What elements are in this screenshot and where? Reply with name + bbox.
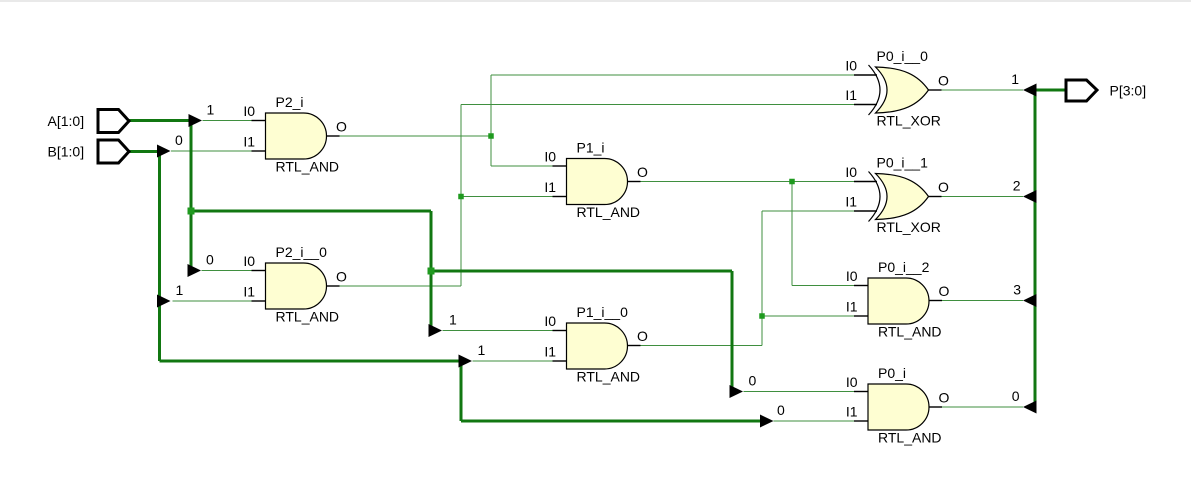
svg-text:I0: I0	[243, 103, 255, 119]
wire bus B vertical	[158, 152, 161, 362]
junction net P1_i__0_O	[759, 313, 765, 319]
svg-text:I1: I1	[544, 179, 556, 195]
svg-text:I0: I0	[845, 58, 857, 74]
wire bus A branch row 2	[431, 270, 732, 273]
pin I1 stub P0_i__0	[854, 104, 877, 106]
P1_i	[544, 140, 648, 221]
svg-text:I0: I0	[544, 149, 556, 165]
svg-text:P1_i__0: P1_i__0	[577, 304, 629, 320]
svg-text:RTL_AND: RTL_AND	[577, 369, 641, 385]
bus tap arrow B[0] upper	[157, 145, 171, 158]
svg-text:I1: I1	[845, 87, 857, 103]
svg-text:1: 1	[176, 282, 184, 298]
wire net P2_i__0_O to P0_i__0 I1	[461, 104, 854, 106]
P2_i__0	[243, 244, 347, 325]
P0_i__2	[846, 259, 950, 340]
svg-text:I0: I0	[846, 374, 858, 390]
wire net P0_i__0_O to P bus	[942, 89, 1024, 91]
P0_i	[846, 365, 950, 446]
svg-text:1: 1	[207, 102, 215, 118]
svg-text:P0_i__2: P0_i__2	[878, 259, 930, 275]
pin I0 stub P0_i__2	[854, 285, 868, 287]
pin I1 stub P1_i__0	[553, 360, 567, 362]
pin O stub P1_i	[628, 181, 641, 183]
bus tap arrow A[0] left	[188, 264, 202, 277]
P0_i__0	[845, 48, 949, 129]
svg-text:RTL_AND: RTL_AND	[276, 159, 340, 175]
svg-text:RTL_AND: RTL_AND	[577, 204, 641, 220]
svg-text:RTL_XOR: RTL_XOR	[877, 113, 941, 129]
wire net P1_i__0_O to P0_i__2 I1	[762, 315, 854, 317]
svg-text:0: 0	[749, 373, 757, 389]
svg-text:P[3:0]: P[3:0]	[1110, 83, 1147, 99]
pin O stub P1_i__0	[628, 345, 641, 347]
gate body P2_i__0	[266, 263, 327, 309]
svg-text:I1: I1	[846, 404, 858, 420]
junction bus A branch	[188, 208, 195, 215]
wire bus A vertical 2	[430, 211, 433, 331]
svg-text:I0: I0	[544, 313, 556, 329]
svg-text:I1: I1	[243, 134, 255, 150]
svg-text:I0: I0	[846, 268, 858, 284]
svg-text:1: 1	[1011, 71, 1019, 87]
svg-text:RTL_XOR: RTL_XOR	[877, 219, 941, 235]
svg-text:P2_i: P2_i	[276, 94, 304, 110]
wire A[1] tap to P2_i I0	[203, 120, 252, 122]
pin I0 stub P1_i	[553, 165, 567, 167]
input side arc P0_i__1	[869, 172, 881, 222]
svg-text:0: 0	[777, 402, 785, 418]
bus tap arrow B[0] lower	[760, 415, 774, 428]
P0_i__1	[845, 155, 949, 236]
gate body P1_i	[567, 159, 628, 205]
wire bus B bottom row	[160, 360, 462, 363]
bus tap arrow P[3]	[1023, 294, 1037, 307]
bus tap arrow P[1]	[1023, 84, 1037, 97]
svg-text:O: O	[938, 179, 949, 195]
pin I1 stub P2_i__0	[252, 300, 266, 302]
svg-text:O: O	[938, 73, 949, 89]
pin I0 stub P1_i__0	[553, 330, 567, 332]
wire bus P to port	[1035, 89, 1065, 92]
input port B[1:0]	[48, 140, 130, 163]
svg-text:P0_i: P0_i	[878, 365, 906, 381]
pin O stub P0_i__2	[929, 300, 942, 302]
wire bus B bottom row 2	[461, 420, 761, 423]
input port A[1:0]	[48, 110, 130, 133]
P1_i__0	[544, 304, 648, 385]
wire net P0_i__2_O to P bus	[942, 300, 1023, 302]
junction bus A branch 2	[428, 268, 435, 275]
pin I0 stub P0_i	[854, 391, 868, 393]
wire B[1] tap to P1_i__0 I1	[473, 360, 553, 362]
wire net P1_i__0_O to P0_i__1 I1	[762, 210, 854, 212]
wire net P1_i_O vertical	[791, 182, 793, 286]
gate body P2_i	[266, 113, 327, 159]
wire bus A branch row	[191, 210, 431, 213]
pin O stub P0_i__1	[929, 196, 942, 198]
svg-text:RTL_AND: RTL_AND	[878, 430, 942, 446]
pin I1 stub P0_i	[854, 420, 868, 422]
pin I1 stub P0_i__2	[854, 315, 868, 317]
pin O stub P0_i__0	[929, 89, 942, 91]
wire net P2_i_O to P1_i I0	[491, 165, 553, 167]
pin O stub P0_i	[929, 406, 942, 408]
wire net P2_i_O vertical up	[490, 75, 492, 136]
bus tap arrow A[1] upper	[189, 114, 203, 127]
bus tap arrow B[1] mid	[459, 355, 473, 368]
wire bus A from port	[129, 119, 193, 122]
svg-text:O: O	[939, 283, 950, 299]
svg-text:0: 0	[175, 132, 183, 148]
wire B[1] tap to P2_i__0 I1	[173, 300, 252, 302]
wire bus P vertical	[1034, 90, 1037, 407]
svg-text:0: 0	[1012, 388, 1020, 404]
wire A[0] tap to P0_i I0	[744, 391, 855, 393]
pin O stub P2_i__0	[327, 285, 340, 287]
wire net P2_i_O to P0_i__0 I0	[491, 74, 854, 76]
pin I0 stub P2_i__0	[252, 270, 266, 272]
svg-text:RTL_AND: RTL_AND	[878, 324, 942, 340]
P2_i	[243, 94, 347, 175]
wire bus A vertical	[190, 121, 193, 271]
svg-text:P1_i: P1_i	[577, 140, 605, 156]
bus tap arrow A[0] lower	[730, 385, 744, 398]
wire A[0] tap to P2_i__0 I0	[202, 270, 252, 272]
gate body P0_i	[868, 384, 929, 430]
svg-text:I1: I1	[845, 194, 857, 210]
output port P[3:0]	[1066, 80, 1146, 101]
svg-text:I1: I1	[846, 299, 858, 315]
svg-text:O: O	[637, 328, 648, 344]
wire net P0_i__1_O to P bus	[942, 196, 1024, 198]
pin I1 stub P0_i__1	[854, 210, 877, 212]
svg-text:I0: I0	[243, 253, 255, 269]
pin I0 stub P0_i__0	[854, 74, 877, 76]
junction net P1_i_O	[789, 179, 795, 185]
svg-text:1: 1	[478, 342, 486, 358]
wire bus A vertical 3	[731, 271, 734, 392]
svg-text:I0: I0	[845, 164, 857, 180]
input side arc P0_i__0	[869, 65, 881, 115]
bus tap arrow A[1] mid	[429, 324, 443, 337]
svg-text:2: 2	[1013, 178, 1021, 194]
wire net P1_i_O to P0_i__2 I0	[792, 285, 854, 287]
svg-text:O: O	[637, 164, 648, 180]
svg-text:P0_i__0: P0_i__0	[877, 48, 929, 64]
gate body P0_i__1	[876, 174, 929, 220]
bus tap arrow P[2]	[1023, 190, 1037, 203]
svg-text:O: O	[336, 269, 347, 285]
gate body P0_i__2	[868, 278, 929, 324]
junction net P2_i_O	[488, 133, 494, 139]
svg-text:P2_i__0: P2_i__0	[276, 244, 328, 260]
wire B[0] tap to P2_i I1	[171, 150, 252, 152]
svg-text:A[1:0]: A[1:0]	[48, 113, 85, 129]
svg-text:I1: I1	[544, 344, 556, 360]
wire bus B vertical 2	[460, 361, 463, 421]
svg-text:O: O	[336, 119, 347, 135]
svg-text:P0_i__1: P0_i__1	[877, 155, 929, 171]
junction net P2_i__0_O	[458, 194, 464, 200]
wire net P2_i_O vertical down	[490, 136, 492, 166]
wire net P2_i__0_O to P1_i I1	[461, 196, 553, 198]
svg-text:RTL_AND: RTL_AND	[276, 309, 340, 325]
wire net P1_i__0_O horizontal	[641, 345, 763, 347]
bus tap arrow P[0]	[1023, 401, 1037, 414]
svg-text:1: 1	[449, 312, 457, 328]
pin I0 stub P0_i__1	[854, 181, 877, 183]
svg-text:O: O	[939, 390, 950, 406]
svg-text:3: 3	[1013, 282, 1021, 298]
pin I1 stub P1_i	[553, 196, 567, 198]
svg-text:I1: I1	[243, 284, 255, 300]
pin I1 stub P2_i	[252, 150, 266, 152]
gate body P0_i__0	[876, 67, 929, 113]
wire net P1_i_O to P0_i__1 I0	[641, 181, 855, 183]
pin I0 stub P2_i	[252, 120, 266, 122]
wire net P2_i__0_O vertical	[460, 105, 462, 287]
wire net P0_i_O to P bus	[942, 406, 1023, 408]
wire net P2_i__0_O horizontal	[340, 285, 462, 287]
wire net P2_i_O horizontal	[340, 135, 492, 137]
bus tap arrow B[1] left	[157, 295, 171, 308]
svg-text:0: 0	[206, 252, 214, 268]
wire A[1] tap to P1_i__0 I0	[443, 330, 553, 332]
gate body P1_i__0	[567, 323, 628, 369]
pin O stub P2_i	[327, 135, 340, 137]
svg-text:B[1:0]: B[1:0]	[48, 144, 85, 160]
wire B[0] tap to P0_i I1	[774, 420, 855, 422]
wire bus B from port	[129, 150, 161, 153]
wire net P1_i__0_O vertical	[761, 211, 763, 346]
